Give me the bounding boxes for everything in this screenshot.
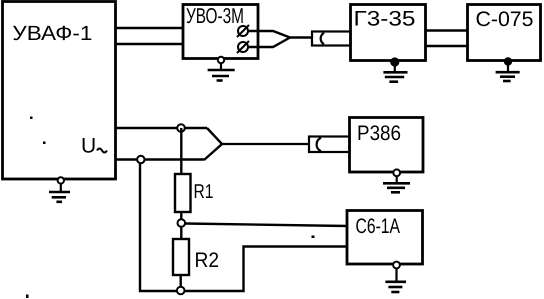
wire upper socket lead to cable junction point: [248, 31, 290, 38]
wire bottom to S6-1A lower input: [185, 247, 348, 292]
wire cable point to coax plug of R386: [222, 143, 309, 145]
ground at S-075: [496, 58, 520, 81]
wire G3-35 to S-075 upper: [426, 29, 468, 31]
svg-text:УВО-3М: УВО-3М: [186, 4, 244, 28]
connector socket upper in UVO-3M: [237, 25, 249, 37]
wire vertical from upper junction to R1: [180, 128, 182, 174]
block UVO-3M label: [186, 4, 244, 28]
svg-text:Г3-35: Г3-35: [354, 7, 416, 30]
wire lower socket lead to cable junction point: [248, 38, 290, 48]
ground at G3-35: [383, 58, 407, 81]
wire U~ lower output: [116, 158, 204, 160]
speck dot 2: [43, 142, 46, 145]
block S-075 box: [468, 5, 541, 61]
wire R1 bottom to junction: [180, 212, 182, 220]
wire U~ upper output: [116, 127, 207, 129]
wire R2 bottom to bottom junction: [179, 275, 181, 288]
wire left vertical return: [140, 163, 177, 291]
block UVAF-1 label: [12, 22, 92, 45]
speck dot 3: [26, 295, 29, 299]
svg-text:С-075: С-075: [476, 8, 534, 31]
wire G3-35 to S-075 lower: [426, 45, 468, 47]
ground at S6-1A: [385, 262, 406, 292]
block S-075 label: [476, 8, 534, 31]
junction bottom node: [177, 287, 185, 295]
wire pair leads converging to cable point: [204, 128, 222, 160]
svg-text:Р386: Р386: [357, 122, 401, 145]
svg-text:С6-1А: С6-1А: [356, 215, 401, 238]
ground at UVAF-1: [49, 177, 70, 202]
wire junction to R2 top: [180, 227, 182, 240]
block S6-1A box: [347, 211, 423, 265]
block UVAF-1 box: [3, 2, 116, 180]
resistor R2: [173, 239, 189, 275]
node U~ output label: [81, 135, 107, 158]
block R386 box: [350, 118, 424, 173]
coax plug into G3-35: [312, 32, 351, 46]
wire junction to S6-1A upper input: [185, 224, 347, 227]
resistor R1: [175, 174, 191, 212]
block UVO-3M box: [183, 5, 258, 59]
block R386 label: [357, 122, 401, 145]
ground at R386: [383, 169, 410, 192]
block G3-35 label: [354, 7, 416, 30]
wire UVAF-1 to UVO-3M upper: [116, 27, 183, 29]
svg-text:R1: R1: [194, 181, 214, 203]
block S6-1A label: [356, 215, 401, 238]
svg-text:УВАФ-1: УВАФ-1: [12, 22, 92, 45]
ground at UVO-3M: [208, 57, 235, 81]
speck dot 1: [30, 117, 33, 120]
svg-text:U: U: [81, 135, 96, 158]
connector socket lower in UVO-3M: [237, 41, 249, 53]
svg-text:R2: R2: [195, 249, 220, 272]
speck dot 4: [312, 236, 315, 239]
junction on upper U~ wire: [177, 124, 185, 132]
wire cable point to coax plug of G3-35: [290, 36, 312, 38]
coax plug into R386: [309, 137, 350, 153]
wire UVAF-1 to UVO-3M lower: [116, 43, 183, 45]
block G3-35 box: [351, 5, 426, 61]
junction on lower U~ wire: [137, 156, 144, 163]
junction between R1 and R2: [178, 219, 186, 227]
